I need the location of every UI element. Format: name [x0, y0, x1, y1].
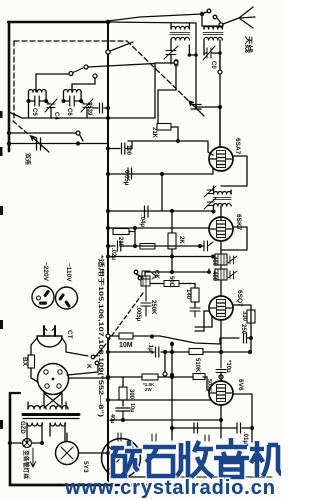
node AVC: [198, 244, 202, 248]
transformer core: [23, 413, 79, 416]
gang cap C1 plates: [37, 138, 41, 150]
svg-text:5Y3: 5Y3: [82, 461, 89, 473]
band switch lever: [73, 68, 83, 73]
wire: x135 link: [134, 228, 136, 246]
power transformer primary A: [28, 406, 46, 409]
wire: y352 line: [108, 351, 250, 353]
svg-text:21K: 21K: [151, 127, 157, 139]
wire: x172 drop to 428: [171, 377, 173, 432]
svg-text:400: 400: [211, 271, 217, 282]
IF transformer T4 winding 2: [215, 269, 227, 280]
node coupling: [249, 336, 253, 340]
glyph ji: [250, 441, 282, 477]
T4 legs: [220, 250, 222, 296]
wire: osc terminal drop: [175, 65, 177, 90]
wire: y420 line: [110, 419, 221, 421]
svg-text:.02μ: .02μ: [110, 248, 116, 260]
svg-text:6V6: 6V6: [237, 379, 244, 391]
tank A legs: [29, 92, 47, 118]
svg-text:C0: C0: [210, 61, 216, 69]
wire: plug right to switch K: [62, 338, 88, 356]
pilot lamp: [23, 439, 32, 448]
switch S1 contacts: [207, 9, 211, 13]
svg-text:~110V: ~110V: [65, 263, 72, 282]
wire: frame to tank bus: [9, 112, 22, 118]
node: bus top: [106, 20, 111, 25]
capacitor C5: [29, 96, 47, 106]
tank B legs: [64, 92, 82, 101]
resistor 10M: [119, 333, 133, 339]
gang cap C2 arrow: [189, 101, 204, 116]
secondary HV: [27, 423, 43, 426]
wire: y63 link: [155, 62, 174, 64]
capacitor to bus at y108: [93, 103, 108, 113]
dashed link pot to switch K: [97, 293, 143, 356]
svg-text:GZD: GZD: [19, 421, 25, 434]
wire: 6SQ7 plate riser: [233, 305, 251, 338]
resistor 140: [191, 288, 199, 302]
svg-text:双连: 双连: [24, 153, 32, 166]
node y174: [106, 172, 110, 176]
capacitor .04u: [145, 206, 149, 217]
wire: main vertical B- bus: [107, 22, 109, 485]
wire: 6SA7 top lead: [219, 107, 221, 147]
tube 6SA7: [209, 147, 233, 171]
svg-text:~220V: ~220V: [42, 262, 49, 282]
svg-text:C4: C4: [53, 112, 59, 120]
plug face 220V: [32, 286, 54, 308]
capacitor .1u: [156, 347, 159, 357]
bus terminal circle: [106, 50, 110, 54]
wire: plug left to fuse: [31, 338, 37, 355]
node 21K/grid: [176, 139, 180, 143]
IF transformer T4 winding 1: [215, 254, 227, 265]
T1 legs: [171, 23, 189, 64]
svg-text:C6: C6: [66, 108, 72, 116]
node: T2/osc junction: [218, 51, 222, 55]
wire: band line 2 / C1 line: [9, 143, 108, 145]
wire: 21K left riser: [158, 90, 176, 124]
node: osc line junction: [194, 53, 198, 57]
svg-text:330: 330: [241, 311, 247, 322]
svg-text:10M: 10M: [119, 342, 133, 349]
terminal tank A: [69, 72, 73, 76]
svg-text:250: 250: [240, 324, 246, 335]
wire: plate loop 6SA7: [221, 156, 247, 186]
capacitor 10u cathode: [216, 352, 226, 373]
wire: antenna feed upper: [108, 14, 202, 21]
phone jack: [142, 271, 156, 279]
resistor 510K: [189, 349, 203, 355]
wire: 21K right to grid line: [128, 127, 213, 155]
svg-text:K: K: [85, 364, 92, 369]
wire: 6V6 plate: [234, 394, 253, 428]
wire: grid line from T2 down to 6SA7: [219, 53, 221, 147]
transformer T2 oscillator coil: [204, 26, 222, 29]
node bus/tank: [106, 116, 110, 120]
svg-text:140: 140: [185, 289, 191, 300]
trimmer C 3539: [81, 99, 93, 112]
wire: cap100 riser: [131, 141, 133, 149]
wire: switch B to oscillator: [88, 64, 155, 68]
svg-text:6SK7: 6SK7: [235, 214, 242, 231]
filter caps 40u 10u: [116, 408, 130, 420]
wire: x155 drop: [154, 63, 156, 118]
node: antenna switch common: [200, 12, 204, 16]
wire: switch drop to coil T2: [201, 14, 203, 26]
capacitor on 428 line: [194, 423, 198, 433]
band switch contact B: [84, 65, 88, 69]
trimmer C0 left: [164, 46, 178, 59]
transformer T1 antenna coil: [171, 26, 189, 29]
power transformer primary B: [50, 406, 68, 409]
svg-text:10μ: 10μ: [129, 403, 135, 412]
wire: top frame line: [8, 21, 108, 23]
wire: 6V6 cathode: [220, 406, 222, 421]
power box top stub: [10, 392, 20, 394]
svg-text:*适用于105,106,107,108,109(“552—8: *适用于105,106,107,108,109(“552—8”): [97, 255, 105, 417]
terminal on grid line: [218, 70, 222, 74]
tube 6SK7: [209, 217, 233, 241]
resistor 2K: [168, 233, 176, 249]
T3 legs: [214, 186, 232, 220]
wire: y256 line: [108, 256, 213, 258]
tube 6V6: [209, 381, 233, 405]
node bus at cap100: [106, 146, 110, 150]
resistor in AVC line: [140, 244, 155, 250]
capacitor cathode bypass: [108, 241, 135, 251]
antenna symbol: [223, 7, 255, 28]
voltage selector: [38, 364, 69, 395]
node on frame: [7, 131, 11, 135]
node tank A left: [26, 99, 30, 103]
wire: thin line under watermark row: [110, 476, 272, 478]
svg-text:*10μ: *10μ: [225, 360, 231, 373]
speaker (behind watermark): [102, 439, 141, 478]
node tank B left: [61, 99, 65, 103]
transformer leads: [27, 393, 66, 443]
capacitor C6: [64, 96, 82, 106]
wire: oscillator feed lower: [108, 22, 196, 107]
svg-text:2W: 2W: [145, 387, 153, 392]
wire: 6SQ7 left leads: [195, 311, 212, 331]
resistor 21K: [157, 124, 171, 131]
node band sw: [76, 141, 80, 145]
wire: 6SK7 cathode: [220, 242, 222, 251]
power plug CT: [37, 336, 62, 347]
resistor 210: [113, 229, 129, 235]
glyph shi: [143, 447, 176, 476]
wire: switch C to tank B: [72, 78, 95, 87]
wire: 6V6 top: [220, 372, 222, 381]
wire: y211 grid2 line: [108, 210, 214, 212]
gang cap C2 plates: [191, 105, 201, 110]
svg-text:510K: 510K: [194, 358, 200, 373]
band switch contact C: [93, 74, 97, 78]
wire: left frame / ground bus: [8, 22, 11, 151]
fuse BX: [28, 355, 35, 368]
wire: selector to bus B+: [69, 377, 108, 379]
capacitor 100: [108, 143, 132, 154]
wire: bus terminal diagonal: [110, 42, 133, 51]
svg-text:50Ω: 50Ω: [168, 276, 174, 288]
dashed gang link left: [13, 121, 42, 146]
antenna terminal: [219, 23, 223, 27]
svg-text:300: 300: [128, 389, 134, 400]
wire: pot top: [136, 269, 209, 276]
wire: y400 filament line: [110, 399, 211, 401]
node: T1 bottom junction: [188, 53, 192, 57]
wire: switch K to selector: [67, 365, 98, 375]
svg-text:天线: 天线: [244, 36, 254, 53]
secondary fil: [50, 423, 66, 426]
wire: x165 drop to terminal: [164, 352, 166, 372]
trimmer C0 right: [203, 46, 215, 60]
wire: lower line y477: [110, 476, 175, 478]
node: padder junction: [218, 105, 222, 109]
band switch: [76, 131, 80, 135]
edge ticks: [0, 111, 3, 118]
wire: y428 line: [172, 427, 252, 429]
svg-text:2K: 2K: [178, 236, 184, 244]
dashed shield box top: [14, 40, 127, 42]
trimmer C4: [45, 99, 57, 112]
IF transformer T3: [214, 192, 232, 195]
dashed shield box left: [13, 41, 15, 118]
wire stubs hidden by watermark: [108, 420, 252, 485]
capacitor AVC: [204, 241, 213, 251]
wire: 6SQ7 bottom: [220, 321, 222, 353]
rectifier 5Y3: [56, 442, 79, 465]
wire: AVC line y246: [135, 245, 200, 247]
svg-text:BX: BX: [21, 357, 28, 367]
capacitor .01u tone: [237, 423, 241, 433]
wire: switch to antenna terminal: [217, 18, 221, 23]
wire: x162 link: [161, 174, 163, 211]
plug face 110V: [56, 287, 78, 309]
node tank B right: [79, 99, 83, 103]
T3 tuning caps: [204, 186, 216, 197]
resistor 1.5K screen: [110, 376, 142, 378]
glyph shou: [177, 441, 213, 477]
capacitor at 140: [190, 308, 200, 317]
wire: selector crossover: [44, 393, 62, 408]
power box left border: [9, 393, 12, 485]
svg-text:.005μ: .005μ: [135, 306, 141, 322]
wire: cathode line y173: [108, 168, 213, 174]
resistor 51K: [193, 374, 205, 380]
tank A top lead: [36, 74, 68, 92]
dashed gang link right: [127, 41, 197, 109]
svg-text:.04μ: .04μ: [139, 215, 145, 227]
resistor 330: [247, 310, 255, 323]
svg-text:40μ: 40μ: [109, 414, 115, 423]
wire: 6SK7 plate loop: [221, 227, 247, 250]
filament arrow: [31, 448, 36, 467]
wire: band line 1: [9, 132, 76, 134]
glyph yin: [214, 438, 249, 477]
svg-text:C5: C5: [31, 108, 37, 116]
resistor 50: [164, 281, 179, 287]
svg-text:0.05μ: 0.05μ: [123, 170, 129, 186]
node tank A right: [44, 99, 48, 103]
wire: y228 line: [108, 227, 209, 229]
svg-text:3539: 3539: [86, 102, 92, 116]
resistor 300: [119, 387, 127, 400]
svg-text:6SA7: 6SA7: [234, 138, 241, 155]
tank A coil L1: [29, 90, 47, 93]
volume pot with switch CK: [134, 270, 138, 274]
wire: x172 drop: [171, 257, 173, 273]
terminal on bus: [106, 334, 110, 338]
capacitor .005u: [141, 286, 151, 316]
T2 legs: [202, 26, 222, 70]
T4 cap 1: [228, 256, 237, 264]
svg-text:www.crystalradio.cn: www.crystalradio.cn: [64, 477, 275, 499]
tube 6SQ7: [209, 296, 233, 320]
wire: x251 drop: [250, 338, 252, 352]
gang cap C1 arrow: [31, 136, 49, 152]
svg-text:.1μ*: .1μ*: [147, 343, 153, 355]
wire: padder to grid line: [196, 106, 220, 108]
tank bottom bus: [22, 117, 155, 119]
svg-text:至各管灯丝: 至各管灯丝: [22, 450, 30, 479]
svg-text:100: 100: [125, 145, 131, 156]
svg-text:250K: 250K: [150, 300, 156, 315]
T4 cap 2: [228, 271, 237, 279]
watermark 矿石收音机 www.crystalradio.cn: [111, 438, 282, 477]
svg-text:CT: CT: [66, 330, 73, 339]
coupling capacitor 250: [244, 333, 252, 343]
tank B top lead: [71, 84, 73, 92]
node 10M line: [150, 334, 154, 338]
tank B coil L2: [64, 90, 82, 93]
capacitor 0.05u: [128, 168, 132, 179]
bottom frame: [10, 484, 178, 487]
wire: x172 vertical: [171, 342, 173, 377]
glyph kuang: [111, 441, 142, 477]
